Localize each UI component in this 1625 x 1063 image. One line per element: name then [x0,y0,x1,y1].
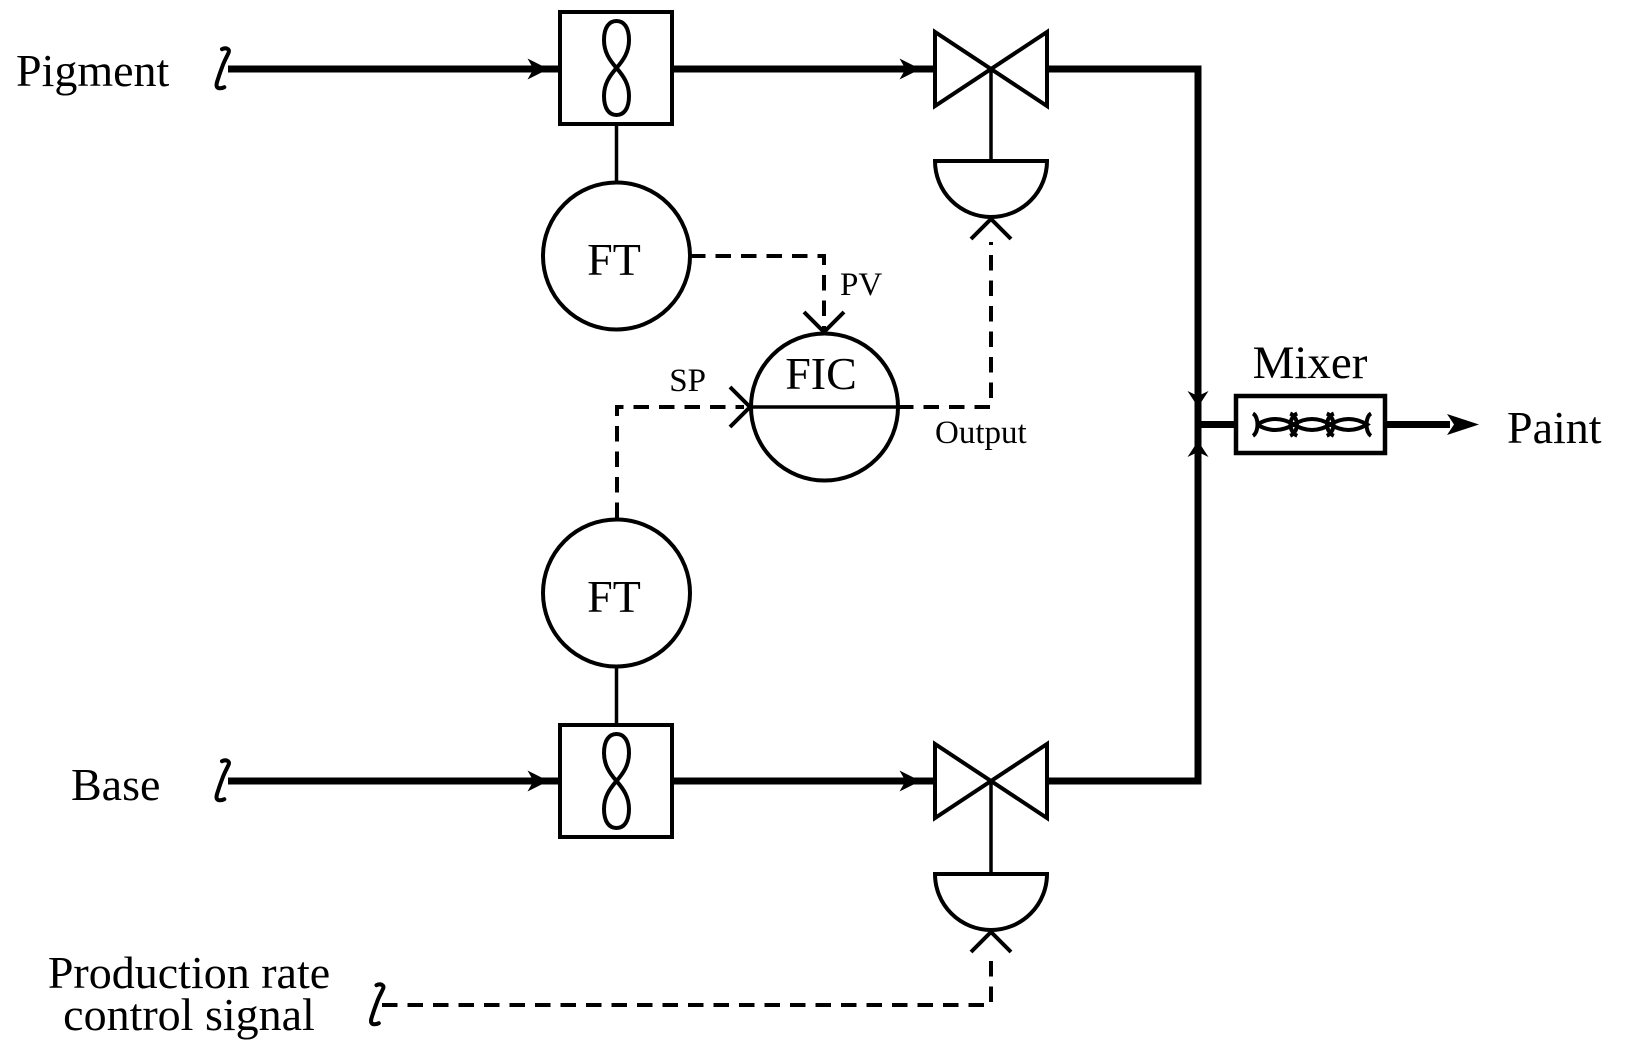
valve1 actuator diaphragm [935,161,1047,217]
svg-text:Output: Output [935,415,1027,451]
valve2 actuator diaphragm [935,874,1047,930]
wire valve2 to main header [1047,778,1198,785]
dashed production rate signal to actuator2 [382,955,991,1005]
control valve 2 (base) [935,744,1047,818]
svg-text:SP: SP [669,363,706,399]
svg-text:FT: FT [587,571,641,622]
arrowhead up on header [1188,441,1209,457]
svg-text:Mixer: Mixer [1253,337,1368,389]
svg-text:Base: Base [71,759,160,810]
wire meter1 to FT1 [615,124,619,184]
arrowhead into valve1 [900,59,921,80]
wire base feed line [228,778,560,785]
svg-text:control signal: control signal [63,989,315,1040]
wire header to mixer [1198,421,1238,428]
figure-8 turbine symbol 1 [604,21,629,115]
svg-text:FT: FT [587,234,641,285]
dashed PV signal FT1 to FIC [690,256,824,329]
open arrowhead SP into FIC [730,387,750,427]
wire pigment feed line [228,66,560,73]
flow meter box 2 (base) [560,725,672,837]
break squiggle production signal [371,984,383,1024]
flow meter box 1 (pigment) [560,12,672,124]
svg-text:PV: PV [840,267,882,303]
mixer element lens 2 [1294,419,1331,430]
wire FT2 to meter2 [615,665,619,726]
wire valve1 to main header [1047,66,1202,73]
valve2 stem [989,781,993,874]
mixer baffle arc left end [1253,414,1258,436]
break squiggle pigment inlet [217,48,229,88]
control valve 1 (pigment) [935,32,1047,106]
mixer baffle arc right end [1367,414,1372,436]
wire meter2 to valve2 [672,778,935,785]
open arrowhead PV into FIC [804,312,844,332]
open arrowhead into actuator2 [971,932,1011,952]
dashed Output signal FIC to valve1 actuator [898,242,991,407]
figure-8 turbine symbol 2 [604,734,629,828]
arrowhead to Paint [1447,414,1479,435]
valve1 stem [989,69,993,161]
FIC centerline [750,405,900,409]
mixer baffle arcs joint 1 [1290,414,1297,436]
mixer element lens 1 [1257,419,1294,430]
arrowhead into base meter [528,771,549,792]
dashed SP signal FT2 to FIC [617,407,744,518]
mixer element lens 3 [1330,419,1367,430]
arrowhead down on header [1188,391,1209,407]
break squiggle base inlet [217,760,229,800]
svg-text:Pigment: Pigment [16,45,170,96]
flow transmitter FT2 [543,520,690,667]
svg-text:FIC: FIC [785,348,857,399]
wire meter1 to valve1 [672,66,935,73]
arrowhead into valve2 [900,771,921,792]
arrowhead into pigment meter [528,59,549,80]
controller FIC [751,334,898,481]
flow transmitter FT1 [543,183,690,330]
main header vertical line [1195,66,1202,785]
svg-text:Paint: Paint [1507,402,1602,453]
mixer baffle arcs joint 2 [1327,414,1334,436]
wire mixer outlet [1385,421,1450,428]
static mixer box [1236,396,1385,453]
open arrowhead into actuator1 [971,219,1011,239]
